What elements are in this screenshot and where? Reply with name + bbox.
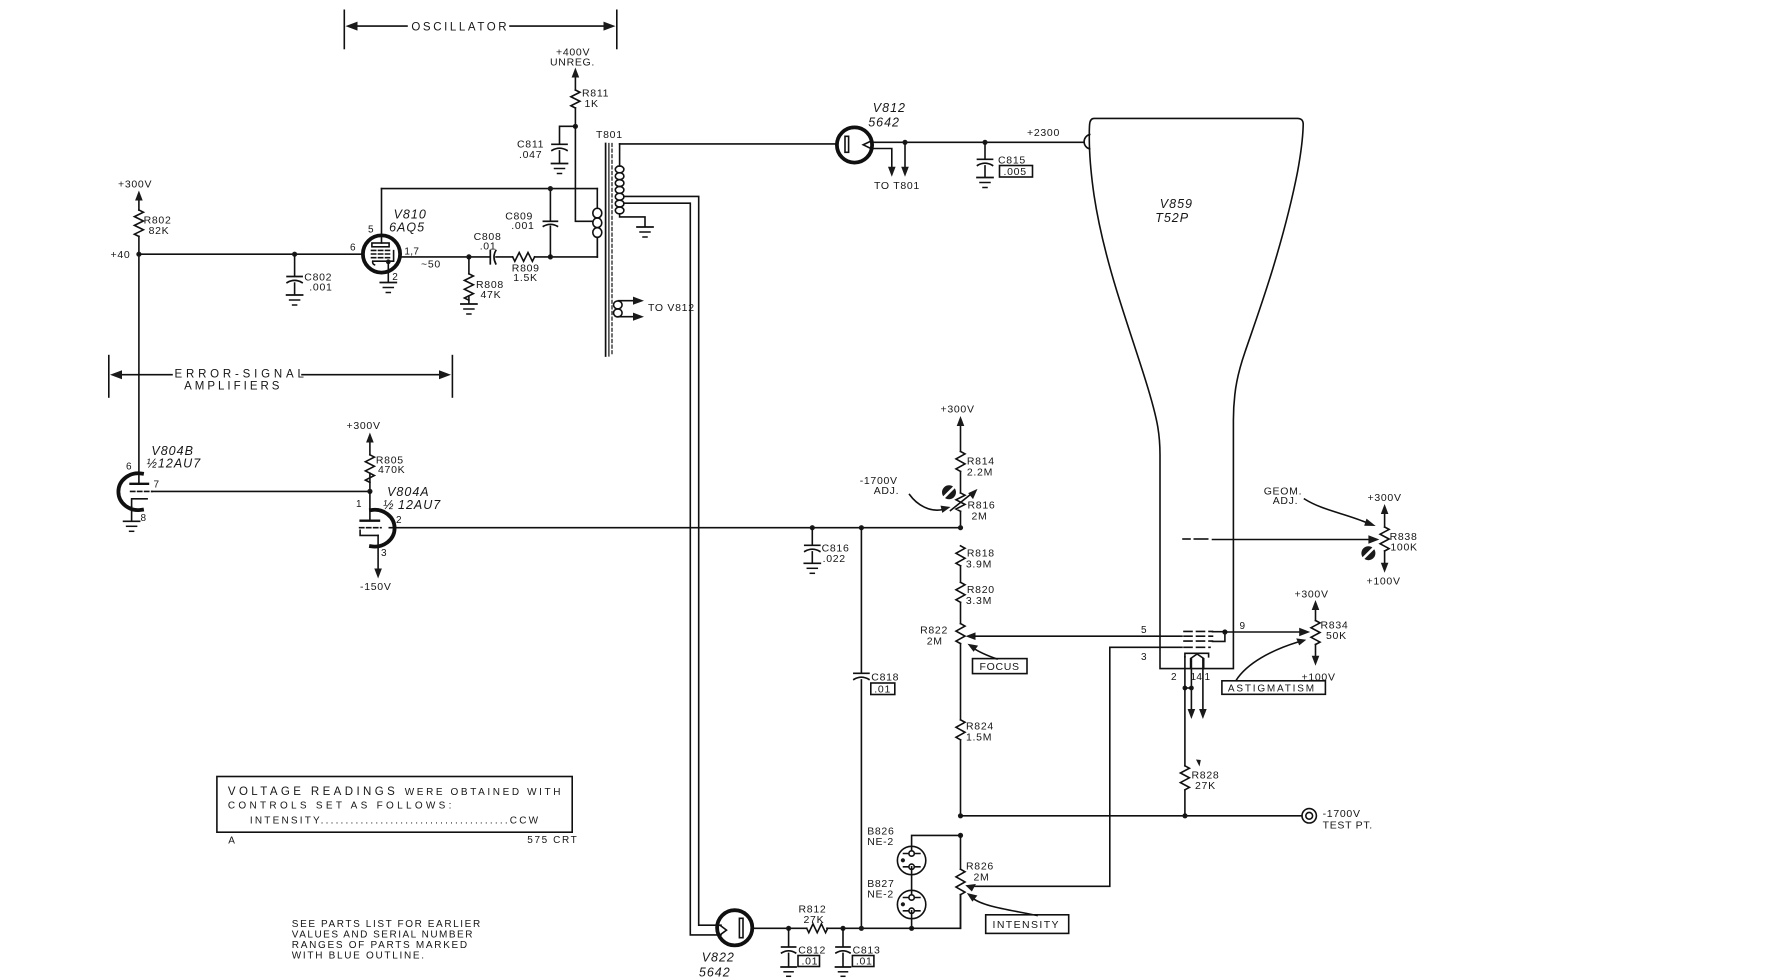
resistor R811	[571, 88, 609, 127]
note box VOLTAGE READINGS	[217, 777, 572, 833]
svg-text:V812: V812	[873, 101, 906, 115]
svg-text:VALUES AND SERIAL NUMBER: VALUES AND SERIAL NUMBER	[292, 930, 474, 941]
node junction C818	[859, 525, 864, 530]
node +100V below R834	[1302, 645, 1336, 684]
svg-text:ADJ.: ADJ.	[1273, 495, 1299, 507]
svg-text:82K: 82K	[149, 225, 170, 237]
svg-text:50K: 50K	[1326, 630, 1347, 642]
CRT vertical deflection plate dashed lead	[1183, 538, 1370, 541]
svg-text:~50: ~50	[421, 259, 441, 271]
resistor R828	[1180, 760, 1219, 816]
wire V822 plate to R826 bottom	[752, 895, 960, 929]
resistor R802	[134, 210, 171, 237]
label -1700V ADJ with arrow	[860, 475, 951, 513]
svg-text:T52P: T52P	[1155, 211, 1189, 225]
wire V810 plate to T801	[382, 188, 598, 190]
tube V822 5642	[699, 910, 752, 979]
node junction heater arrow	[902, 140, 907, 145]
svg-text:2M: 2M	[927, 636, 943, 648]
resistor R818	[956, 546, 995, 583]
node junction R808	[466, 254, 471, 259]
svg-text:9: 9	[1240, 621, 1246, 632]
node junction -1700V rail / R824	[958, 813, 963, 818]
resistor R805	[365, 455, 405, 492]
node +400V UNREG	[550, 47, 595, 91]
node +300V above R814	[941, 404, 975, 452]
svg-text:5642: 5642	[868, 116, 900, 130]
wire +40 rail to V810 grid	[139, 253, 363, 255]
wire focus wiper to CRT pin 5	[966, 632, 1183, 640]
svg-text:2.2M: 2.2M	[967, 467, 993, 479]
svg-text:ADJ.: ADJ.	[874, 485, 900, 497]
capacitor C813	[836, 928, 881, 967]
svg-text:27K: 27K	[804, 914, 825, 926]
node +300V left	[118, 179, 152, 211]
CRT pin labels	[1141, 621, 1246, 683]
node junction R828 rail	[1182, 813, 1187, 818]
wire B826 to B827	[911, 867, 913, 898]
svg-text:FOCUS: FOCUS	[980, 661, 1020, 673]
svg-text:WITH BLUE OUTLINE.: WITH BLUE OUTLINE.	[292, 951, 426, 962]
svg-text:3.3M: 3.3M	[966, 595, 992, 607]
node junction C813	[840, 926, 845, 931]
svg-text:ERROR-SIGNAL: ERROR-SIGNAL	[175, 369, 308, 381]
tube V804B half 12AU7	[118, 444, 201, 524]
svg-text:INTENSITY.....................: INTENSITY...............................…	[250, 816, 540, 827]
tube V804A half 12AU7	[356, 485, 441, 559]
wire CRT pin3 grid to intensity wiper	[975, 647, 1182, 886]
svg-text:.001: .001	[309, 282, 332, 294]
svg-text:OSCILLATOR: OSCILLATOR	[411, 22, 509, 34]
svg-text:T801: T801	[596, 129, 623, 141]
svg-text:2: 2	[396, 515, 402, 526]
wire V804A grid to divider junction	[389, 527, 960, 529]
potentiometer R826 INTENSITY	[956, 835, 994, 928]
node junction C816	[810, 525, 815, 530]
svg-text:+300V: +300V	[347, 420, 381, 432]
ground below V810 cathode	[380, 283, 396, 293]
label INTENSITY box with arrow	[967, 893, 1069, 933]
node junction B827 bottom	[909, 926, 914, 931]
node junction R811/C811	[573, 124, 578, 129]
wire T801 secondary top to V812	[620, 143, 836, 145]
ground below C812	[781, 967, 796, 976]
svg-text:2: 2	[1171, 672, 1177, 683]
T801 primary winding	[593, 189, 602, 257]
tube V812 5642	[837, 101, 906, 163]
adjust symbol R838	[1361, 546, 1375, 560]
CRT V859 T52P envelope	[1089, 118, 1303, 668]
svg-text:AMPLIFIERS: AMPLIFIERS	[184, 380, 282, 392]
node junction B826 top	[958, 833, 963, 838]
resistor R814	[956, 451, 995, 493]
neon bulb B826 NE-2	[867, 826, 926, 875]
node junction C802	[292, 252, 297, 257]
wire wiper arrow into R826	[965, 884, 976, 892]
transformer T801 core	[596, 129, 623, 356]
resistor R812	[799, 904, 828, 933]
svg-text:14: 14	[1191, 672, 1203, 683]
svg-text:.047: .047	[519, 149, 542, 161]
svg-text:6AQ5: 6AQ5	[389, 221, 425, 235]
svg-text:TO V812: TO V812	[648, 302, 695, 314]
ground below C816	[804, 563, 820, 573]
svg-text:.005: .005	[1004, 166, 1027, 178]
svg-text:.01: .01	[802, 956, 819, 968]
svg-text:3: 3	[381, 548, 387, 559]
svg-text:V859: V859	[1160, 197, 1193, 211]
capacitor C809	[505, 189, 557, 257]
resistor R820	[956, 582, 995, 623]
svg-text:+100V: +100V	[1302, 672, 1336, 684]
potentiometer R816	[951, 489, 996, 528]
wire V804A cathode to -150V	[360, 535, 392, 593]
svg-text:470K: 470K	[378, 464, 405, 476]
node junction C809 bottom	[548, 254, 553, 259]
potentiometer R838 GEOM	[1380, 527, 1418, 554]
svg-text:V810: V810	[394, 208, 427, 222]
svg-text:6: 6	[350, 243, 356, 254]
svg-text:C818: C818	[871, 672, 899, 684]
svg-text:.01: .01	[856, 956, 873, 968]
svg-text:47K: 47K	[481, 289, 502, 301]
section header ERROR-SIGNAL AMPLIFIERS bracket	[109, 356, 453, 397]
node +100V below R838	[1367, 551, 1401, 588]
capacitor C815	[978, 142, 1033, 178]
svg-text:TEST PT.: TEST PT.	[1323, 820, 1373, 832]
wire V810 cathode pins 1,7	[400, 256, 490, 258]
capacitor C816	[805, 528, 850, 565]
svg-text:TO T801: TO T801	[874, 180, 920, 192]
wire B826 top lead	[912, 835, 961, 853]
ground below C813	[836, 967, 851, 976]
svg-text:+2300: +2300	[1027, 127, 1060, 139]
wire R838 wiper arrow	[1368, 535, 1379, 543]
svg-text:7: 7	[154, 480, 160, 491]
ground below C815	[977, 178, 993, 188]
note SEE PARTS LIST	[292, 919, 482, 962]
node junction C812	[786, 926, 791, 931]
svg-text:+300V: +300V	[1368, 492, 1402, 504]
label FOCUS box with arrow	[968, 644, 1028, 674]
svg-text:27K: 27K	[1195, 780, 1216, 792]
resistor R824	[956, 720, 994, 816]
svg-text:INTENSITY: INTENSITY	[993, 919, 1060, 931]
svg-text:V804A: V804A	[387, 485, 430, 499]
neon bulb B827 NE-2	[867, 878, 926, 919]
svg-text:5: 5	[1141, 625, 1147, 636]
test point -1700V TEST PT	[1302, 808, 1373, 832]
svg-text:UNREG.: UNREG.	[550, 57, 595, 69]
svg-text:½ 12AU7: ½ 12AU7	[383, 498, 441, 512]
node +300V above R805	[347, 420, 381, 455]
T801 heater winding TO V812	[614, 297, 695, 321]
wire B827 bottom lead	[911, 911, 913, 929]
svg-text:+300V: +300V	[1295, 589, 1329, 601]
svg-text:C815: C815	[998, 155, 1026, 167]
svg-text:A: A	[228, 836, 235, 847]
svg-text:1: 1	[1205, 672, 1211, 683]
svg-text:6: 6	[126, 462, 132, 473]
svg-text:3: 3	[1141, 652, 1147, 663]
potentiometer R822 FOCUS	[920, 624, 965, 720]
capacitor C802	[287, 254, 332, 294]
resistor R808	[464, 257, 504, 304]
svg-text:-1700V: -1700V	[1323, 808, 1361, 820]
ground below C811	[552, 164, 568, 174]
ground below V804B	[124, 521, 140, 531]
svg-text:5: 5	[368, 225, 374, 236]
svg-text:VOLTAGE READINGS WERE OBTAINE: VOLTAGE READINGS WERE OBTAINED WITH	[228, 786, 563, 798]
svg-text:8: 8	[141, 513, 147, 524]
node junction R805 V804A plate	[367, 489, 372, 494]
node +300V above R834	[1295, 589, 1329, 621]
node +40	[111, 249, 142, 261]
svg-text:RANGES OF PARTS MARKED: RANGES OF PARTS MARKED	[292, 940, 469, 951]
node junction C818 bottom	[859, 926, 864, 931]
svg-text:2M: 2M	[974, 872, 990, 884]
CRT grid cup and cathode	[1185, 653, 1209, 668]
ground T801 secondary	[637, 227, 653, 237]
T801 secondary winding	[615, 144, 645, 227]
wire V804B cathode to ground	[131, 507, 133, 521]
CRT grid structure rows	[1184, 631, 1225, 647]
svg-text:1: 1	[356, 499, 362, 510]
svg-text:ASTIGMATISM: ASTIGMATISM	[1228, 684, 1316, 695]
svg-text:2: 2	[392, 272, 398, 283]
capacitor C812	[782, 928, 827, 967]
svg-text:+100V: +100V	[1367, 576, 1401, 588]
svg-text:+40: +40	[111, 249, 131, 261]
resistor R809	[496, 252, 597, 284]
node junction divider / grid wire	[958, 525, 963, 530]
svg-text:½12AU7: ½12AU7	[147, 457, 202, 471]
svg-text:.01: .01	[480, 241, 497, 253]
node junction C815	[982, 140, 987, 145]
svg-text:.001: .001	[511, 220, 534, 232]
capacitor C818	[854, 528, 899, 929]
capacitor C811	[517, 126, 575, 163]
node cathode-heater tie dots	[1183, 686, 1194, 691]
node junction C809 top	[548, 186, 553, 191]
label ASTIGMATISM box with arrow	[1222, 638, 1326, 694]
svg-text:+300V: +300V	[941, 404, 975, 416]
ground below C802	[287, 295, 303, 305]
adjust symbol R816	[942, 485, 956, 499]
wire TO T801 heater arrows	[872, 142, 920, 192]
svg-text:-150V: -150V	[360, 581, 392, 593]
wire CRT pin9 to R834 wiper	[1213, 628, 1311, 636]
wire R809 to T801 primary bottom	[596, 237, 598, 257]
CRT anode button	[1084, 135, 1090, 149]
svg-text:5642: 5642	[699, 966, 731, 980]
wire +400V center tap to T801 primary	[575, 126, 592, 221]
wire T801 secondary tap upper to V822	[624, 196, 721, 925]
section header OSCILLATOR bracket	[344, 10, 617, 48]
tube V810 6AQ5	[350, 189, 427, 283]
svg-text:CONTROLS SET AS FOLLOWS:: CONTROLS SET AS FOLLOWS:	[228, 801, 455, 812]
svg-text:NE-2: NE-2	[867, 889, 894, 901]
ground below R808	[461, 304, 477, 314]
svg-text:NE-2: NE-2	[867, 836, 894, 848]
label GEOM ADJ with arrow	[1264, 486, 1376, 527]
svg-text:+300V: +300V	[118, 179, 152, 191]
svg-text:100K: 100K	[1390, 542, 1417, 554]
svg-text:.01: .01	[874, 683, 891, 695]
wire CRT pin2 cathode down to R828	[1184, 657, 1186, 766]
wire V804B grid to R805 junction	[152, 490, 370, 492]
wire R802 to +40 node and down to V804B	[138, 236, 140, 483]
svg-text:1.5M: 1.5M	[966, 732, 992, 744]
svg-text:.022: .022	[823, 553, 846, 565]
svg-text:1,7: 1,7	[404, 247, 419, 258]
capacitor C808	[474, 231, 502, 264]
svg-text:2M: 2M	[972, 511, 988, 523]
svg-text:1.5K: 1.5K	[513, 272, 537, 284]
CRT heater leads with arrows	[1188, 659, 1207, 719]
wire -1700V rail	[961, 815, 1302, 817]
potentiometer R834 ASTIGMATISM	[1311, 620, 1348, 645]
svg-text:1K: 1K	[585, 98, 599, 110]
svg-text:SEE PARTS LIST FOR EARLIER: SEE PARTS LIST FOR EARLIER	[292, 919, 482, 930]
wire T801 secondary tap lower to V822	[624, 203, 721, 935]
svg-text:575 CRT: 575 CRT	[527, 835, 578, 846]
svg-text:3.9M: 3.9M	[966, 559, 992, 571]
node +300V above R838	[1368, 492, 1402, 527]
svg-text:V822: V822	[702, 951, 735, 965]
wire V812 plate to +2300	[872, 141, 1084, 143]
